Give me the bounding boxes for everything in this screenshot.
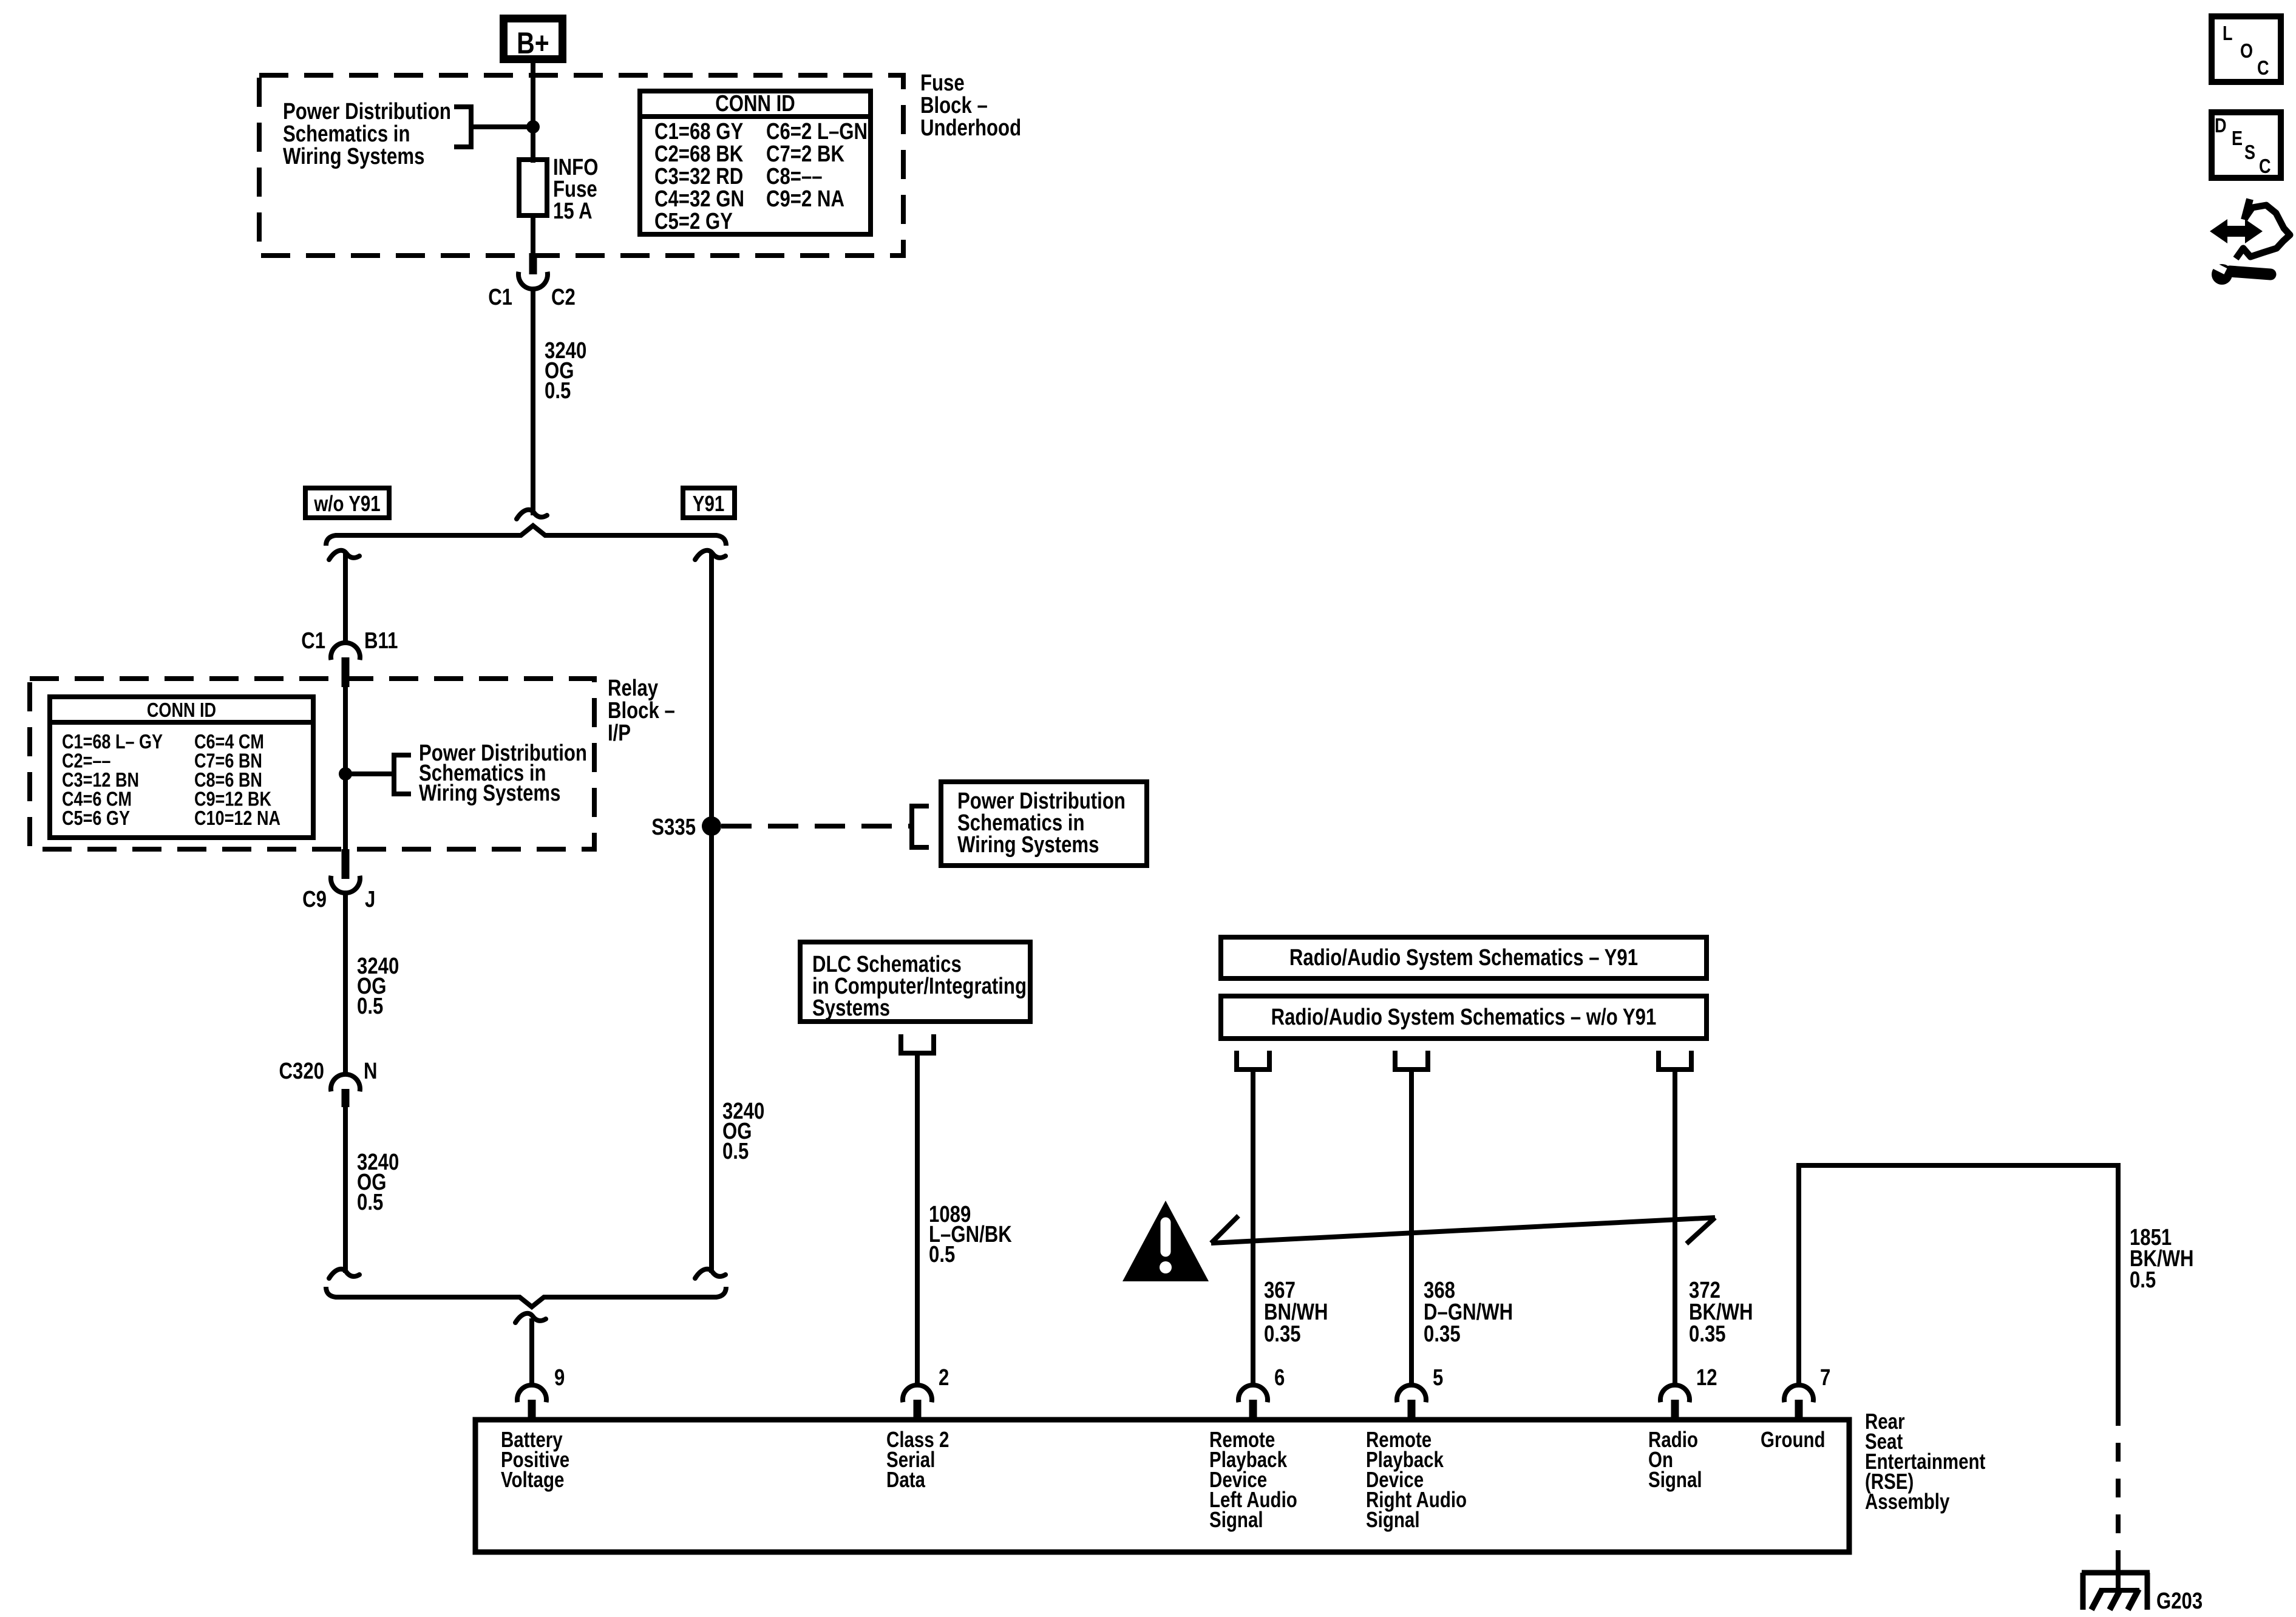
svg-text:9: 9 xyxy=(554,1365,565,1391)
wire 3240 OG 0.5 (Y91 branch) xyxy=(709,554,714,1273)
note Power Distribution Schematics in Wiring Systems (relay block) xyxy=(419,741,587,806)
label wire 1851 BK/WH 0.5 xyxy=(2130,1225,2194,1293)
connector C9 / J (relay block exit) xyxy=(302,849,375,912)
connector pin 9 (RSE assembly) xyxy=(517,1365,565,1421)
svg-text:Signal: Signal xyxy=(1648,1467,1702,1491)
svg-text:I/P: I/P xyxy=(608,720,631,746)
wire 368 D-GN/WH 0.35 xyxy=(1409,1070,1414,1385)
svg-text:CONN ID: CONN ID xyxy=(147,700,216,722)
svg-text:0.5: 0.5 xyxy=(2130,1267,2156,1293)
svg-text:0.5: 0.5 xyxy=(357,1190,383,1215)
svg-text:0.35: 0.35 xyxy=(1264,1321,1301,1347)
split brace w/o Y91 | Y91 xyxy=(326,526,726,546)
svg-text:Voltage: Voltage xyxy=(501,1467,564,1491)
svg-text:C320: C320 xyxy=(279,1059,324,1084)
label Rear Seat Entertainment (RSE) Assembly xyxy=(1865,1409,1985,1513)
twisted/shielded crossing line xyxy=(1211,1218,1715,1243)
bracket to note (relay) xyxy=(394,755,411,794)
svg-text:C: C xyxy=(2257,58,2269,80)
fuse block dashed box: Fuse Block - Underhood xyxy=(259,75,903,256)
svg-text:Wiring Systems: Wiring Systems xyxy=(283,144,424,169)
pin label Remote Playback Device Left Audio Signal xyxy=(1209,1427,1297,1531)
merge brace to RSE feed xyxy=(326,1287,726,1307)
svg-text:Radio/Audio System Schematics: Radio/Audio System Schematics – w/o Y91 xyxy=(1271,1005,1657,1030)
svg-text:Data: Data xyxy=(886,1467,926,1491)
svg-text:Ground: Ground xyxy=(1761,1427,1826,1451)
option tag box w/o Y91 xyxy=(305,488,389,518)
svg-text:B11: B11 xyxy=(364,628,398,654)
icon DESC xyxy=(2212,112,2281,178)
svg-text:0.5: 0.5 xyxy=(545,378,571,404)
svg-text:C7=2 BK: C7=2 BK xyxy=(766,141,844,167)
pin label Class 2 Serial Data xyxy=(886,1427,949,1491)
wire fuse to connector xyxy=(531,215,535,255)
label Fuse Block - Underhood xyxy=(920,70,1021,141)
label wire 372 BK/WH 0.35 xyxy=(1689,1278,1753,1347)
svg-text:C9=2 NA: C9=2 NA xyxy=(766,186,844,212)
dashed wire 1851 BK/WH 0.5 to G203 xyxy=(2116,1407,2121,1561)
wire break squiggle above split xyxy=(517,510,547,519)
svg-text:C4=32 GN: C4=32 GN xyxy=(654,186,744,212)
svg-text:C8=––: C8=–– xyxy=(766,164,823,189)
svg-text:Wiring Systems: Wiring Systems xyxy=(957,832,1099,858)
svg-text:L: L xyxy=(2223,23,2233,45)
svg-text:B+: B+ xyxy=(517,26,549,60)
node on B+ feed xyxy=(526,120,540,134)
label Relay Block - I/P xyxy=(608,676,675,746)
connector pin 2 (RSE assembly) xyxy=(903,1365,949,1421)
note box Power Distribution Schematics in Wiring Systems (S335) xyxy=(941,782,1147,866)
wire 3240 OG 0.5 (left, upper) xyxy=(343,893,348,1074)
label wire 368 D-GN/WH 0.35 xyxy=(1424,1278,1513,1347)
svg-text:Power Distribution: Power Distribution xyxy=(283,99,451,124)
svg-text:D: D xyxy=(2215,115,2227,137)
svg-text:S335: S335 xyxy=(651,815,696,840)
svg-text:C5=6 GY: C5=6 GY xyxy=(62,808,130,830)
CONN ID table (relay block) xyxy=(50,697,313,838)
wire 1089 L-GN/BK 0.5 xyxy=(915,1053,920,1385)
wire break squiggle left branch bottom xyxy=(329,1269,359,1278)
bracket to note (S335) xyxy=(912,806,929,847)
connector C320 / N (inline) xyxy=(279,1059,378,1107)
svg-text:C1=68 GY: C1=68 GY xyxy=(654,119,743,144)
svg-text:2: 2 xyxy=(939,1365,949,1391)
svg-text:Radio/Audio System Schematics: Radio/Audio System Schematics – Y91 xyxy=(1289,945,1638,971)
svg-text:Relay: Relay xyxy=(608,676,659,701)
connector C1 / B11 (relay block) xyxy=(301,628,398,687)
connector C1 / C2 (fuse block underhood) xyxy=(488,253,576,310)
wire break squiggle right branch bottom xyxy=(695,1269,725,1278)
svg-text:C10=12 NA: C10=12 NA xyxy=(194,808,280,830)
splice S335 xyxy=(651,815,721,840)
ground G203 xyxy=(2082,1573,2203,1614)
label wire 3240 OG 0.5 xyxy=(357,1150,399,1215)
svg-text:12: 12 xyxy=(1696,1365,1717,1391)
svg-text:C6=2 L–GN: C6=2 L–GN xyxy=(766,119,868,144)
svg-text:15 A: 15 A xyxy=(553,198,593,224)
pin label Remote Playback Device Right Audio Signal xyxy=(1366,1427,1467,1531)
svg-text:C2: C2 xyxy=(551,285,576,310)
pin label Battery Positive Voltage xyxy=(501,1427,569,1491)
svg-text:0.5: 0.5 xyxy=(929,1242,955,1267)
svg-text:S: S xyxy=(2244,142,2255,164)
svg-text:C1: C1 xyxy=(488,285,512,310)
label wire 3240 OG 0.5 xyxy=(357,954,399,1019)
svg-text:7: 7 xyxy=(1820,1365,1830,1391)
svg-text:C1: C1 xyxy=(301,628,325,654)
svg-text:C3=32 RD: C3=32 RD xyxy=(654,164,743,189)
note box Radio/Audio System Schematics - w/o Y91 xyxy=(1221,996,1707,1039)
wire break squiggle below merge xyxy=(515,1314,546,1323)
warning triangle xyxy=(1123,1201,1209,1281)
option tag box Y91 xyxy=(683,488,735,518)
wire left branch to C1/B11 xyxy=(343,554,348,643)
svg-text:Block –: Block – xyxy=(920,93,988,118)
label wire 3240 OG 0.5 xyxy=(545,338,586,404)
wire 367 BN/WH 0.35 xyxy=(1251,1070,1255,1385)
note Power Distribution Schematics in Wiring Systems (fuse block) xyxy=(283,99,451,169)
svg-text:Signal: Signal xyxy=(1209,1507,1263,1531)
svg-text:Wiring Systems: Wiring Systems xyxy=(419,781,560,806)
connector pin 7 (RSE assembly) xyxy=(1784,1365,1830,1421)
note box Radio/Audio System Schematics - Y91 xyxy=(1221,937,1707,978)
bracket under radio boxes (pin 5) xyxy=(1395,1051,1428,1070)
wire break squiggle right branch xyxy=(695,551,725,560)
bracket under DLC box xyxy=(901,1034,934,1053)
crossing line left barb xyxy=(1211,1216,1238,1243)
connector pin 5 (RSE assembly) xyxy=(1397,1365,1443,1421)
svg-text:C9: C9 xyxy=(302,887,327,912)
wire B+ to fuse block xyxy=(531,63,535,127)
svg-text:Block –: Block – xyxy=(608,698,675,724)
wire 372 BK/WH 0.35 xyxy=(1673,1070,1677,1385)
svg-text:Underhood: Underhood xyxy=(920,115,1021,141)
svg-text:Signal: Signal xyxy=(1366,1507,1420,1531)
CONN ID table (fuse block) xyxy=(640,91,871,234)
svg-text:Schematics in: Schematics in xyxy=(283,121,410,147)
svg-text:0.5: 0.5 xyxy=(722,1139,749,1164)
dashed wire S335 to note xyxy=(721,824,912,829)
svg-text:0.5: 0.5 xyxy=(357,994,383,1019)
fuse F INFO 15A xyxy=(519,155,598,224)
svg-text:C5=2 GY: C5=2 GY xyxy=(654,209,733,234)
svg-text:0.35: 0.35 xyxy=(1689,1321,1726,1347)
wire inside relay block xyxy=(343,687,348,849)
note box DLC Schematics in Computer/Integrating Systems xyxy=(800,942,1030,1022)
wire 3240 OG 0.5 (left, lower) xyxy=(343,1107,348,1273)
label wire 367 BN/WH 0.35 xyxy=(1264,1278,1328,1347)
svg-text:5: 5 xyxy=(1433,1365,1443,1391)
bracket under radio boxes (pin 6) xyxy=(1237,1051,1269,1070)
icon LOC xyxy=(2212,16,2281,82)
connector pin 12 (RSE assembly) xyxy=(1660,1365,1717,1421)
pin label Ground xyxy=(1761,1427,1826,1451)
crossing line right barb xyxy=(1686,1218,1715,1244)
wire node to bracket xyxy=(345,771,394,776)
svg-text:Assembly: Assembly xyxy=(1865,1489,1950,1513)
svg-text:N: N xyxy=(364,1059,378,1084)
connector pin 6 (RSE assembly) xyxy=(1238,1365,1285,1421)
bracket to note xyxy=(454,107,471,147)
svg-text:Fuse: Fuse xyxy=(920,70,965,96)
wire node to fuse xyxy=(531,127,535,163)
component box Rear Seat Entertainment (RSE) Assembly xyxy=(475,1420,1849,1552)
svg-text:Systems: Systems xyxy=(812,995,890,1021)
svg-text:G203: G203 xyxy=(2156,1588,2203,1614)
svg-text:6: 6 xyxy=(1274,1365,1285,1391)
svg-text:Y91: Y91 xyxy=(693,491,725,515)
node junction in relay block xyxy=(339,767,352,781)
label wire 1089 L-GN/BK 0.5 xyxy=(929,1202,1012,1267)
svg-text:C: C xyxy=(2259,156,2271,178)
svg-text:J: J xyxy=(365,887,375,912)
svg-text:O: O xyxy=(2240,41,2253,63)
wire merge to pin 9 xyxy=(529,1318,534,1385)
label wire 3240 OG 0.5 (Y91 branch) xyxy=(722,1099,764,1164)
pin label Radio On Signal xyxy=(1648,1427,1702,1491)
wire 3240 OG 0.5 (feed) xyxy=(531,289,535,515)
icon wrench xyxy=(2211,264,2271,285)
svg-text:0.35: 0.35 xyxy=(1424,1321,1461,1347)
svg-text:C2=68 BK: C2=68 BK xyxy=(654,141,743,167)
svg-text:w/o Y91: w/o Y91 xyxy=(313,491,380,515)
svg-text:E: E xyxy=(2232,128,2243,150)
icon jump-to arrow xyxy=(2210,199,2290,259)
relay block dashed box: Relay Block - I/P xyxy=(30,679,594,849)
wire break squiggle left branch xyxy=(329,551,359,560)
wire ground pin 7 up and over xyxy=(1796,1168,1801,1385)
bracket under radio boxes (pin 12) xyxy=(1659,1051,1691,1070)
power symbol B+ xyxy=(504,19,563,60)
svg-text:CONN ID: CONN ID xyxy=(715,91,795,117)
wire bracket to node xyxy=(471,124,532,129)
